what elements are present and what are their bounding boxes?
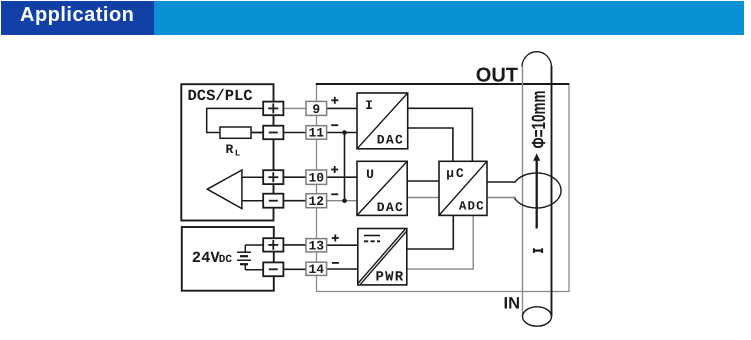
svg-text:9: 9 [312, 102, 320, 117]
svg-text:R: R [226, 142, 234, 157]
svg-text:DAC: DAC [377, 133, 404, 148]
svg-text:IN: IN [504, 295, 521, 313]
svg-text:U: U [366, 167, 374, 182]
svg-text:OUT: OUT [476, 65, 518, 87]
svg-text:Φ=10mm: Φ=10mm [528, 91, 549, 149]
svg-text:ADC: ADC [459, 200, 485, 214]
svg-text:L: L [235, 149, 240, 159]
svg-text:PWR: PWR [376, 270, 405, 286]
svg-text:DC: DC [219, 254, 233, 266]
svg-text:10: 10 [308, 170, 324, 185]
svg-text:DCS/PLC: DCS/PLC [188, 87, 253, 105]
svg-text:14: 14 [308, 262, 324, 277]
svg-text:I: I [365, 98, 373, 113]
svg-text:11: 11 [308, 126, 324, 141]
svg-text:DAC: DAC [377, 200, 404, 215]
svg-text:12: 12 [308, 194, 324, 209]
svg-text:13: 13 [308, 238, 324, 253]
svg-text:µC: µC [446, 166, 465, 181]
svg-text:24V: 24V [192, 249, 221, 267]
